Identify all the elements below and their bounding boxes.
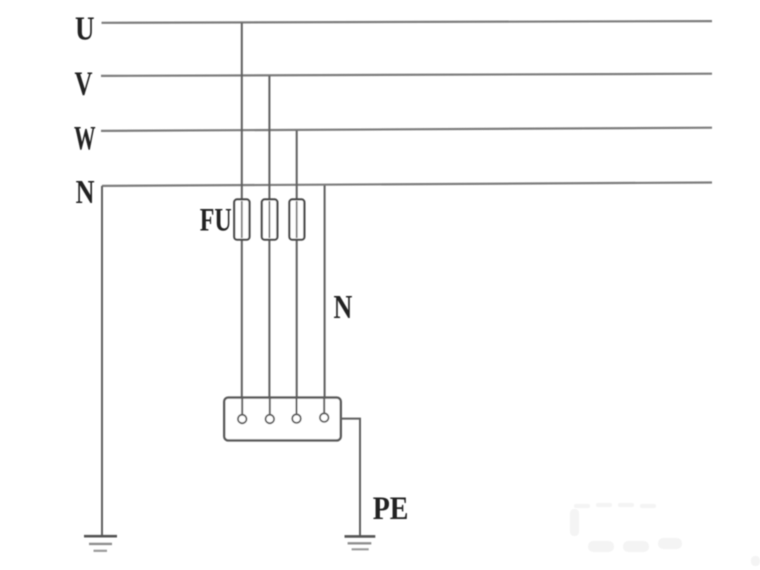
wire: U phase bus	[102, 21, 713, 23]
terminal 3	[292, 414, 301, 423]
fuse inner wire W	[296, 201, 298, 238]
svg-text:PE: PE	[373, 491, 409, 527]
fuse inner wire U	[241, 201, 243, 238]
ground (right, PE earth)	[345, 536, 376, 549]
fuse FU (V phase)	[262, 199, 278, 239]
wire: PE stub from terminal block to earth	[341, 419, 360, 536]
wire: stub to terminal 1	[241, 398, 243, 415]
wire: W drop to fuse and terminal 3	[296, 131, 298, 416]
ground (left, N earth)	[84, 536, 117, 551]
wire: stub to terminal 3	[296, 398, 298, 415]
svg-text:W: W	[74, 120, 96, 157]
svg-text:U: U	[75, 11, 95, 48]
terminal 1	[238, 415, 247, 424]
svg-text:FU: FU	[200, 202, 232, 238]
wire: V phase bus	[101, 74, 712, 76]
wire: N drop to terminal 4	[324, 186, 326, 415]
wire: V drop to fuse and terminal 2	[268, 76, 270, 415]
terminal 2	[266, 415, 275, 424]
fuse inner wire V	[268, 201, 270, 238]
fuse FU (W phase)	[289, 199, 304, 239]
terminal 4	[320, 413, 329, 422]
fuse FU (U phase)	[234, 199, 249, 239]
wire: stub to terminal 4	[323, 398, 325, 414]
wire: N bus down to earth (left)	[101, 186, 103, 536]
watermark (decorative)	[570, 503, 760, 566]
wire: W phase bus	[101, 128, 712, 131]
svg-text:N: N	[334, 289, 353, 326]
wire: stub to terminal 2	[269, 398, 271, 415]
wire: N bus	[102, 183, 712, 186]
wire: U drop to fuse and terminal 1	[241, 23, 243, 415]
terminal block	[224, 398, 341, 441]
svg-text:V: V	[75, 65, 93, 102]
svg-text:N: N	[76, 174, 95, 211]
